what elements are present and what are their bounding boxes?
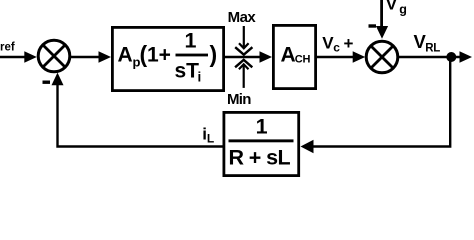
svg-text:V: V xyxy=(386,0,398,14)
svg-text:R + sL: R + sL xyxy=(229,146,291,170)
arrowhead into RL block xyxy=(301,140,314,153)
svg-text:sT: sT xyxy=(175,60,200,83)
svg-text:Min: Min xyxy=(227,91,251,108)
node VRL label xyxy=(414,31,441,54)
wire ACH to S2 xyxy=(316,51,365,63)
svg-text:): ) xyxy=(210,41,218,67)
wire PI to ACH with limiter xyxy=(224,51,272,63)
wire S2 to output xyxy=(398,51,472,63)
load block 1/(R+sL) xyxy=(224,112,299,175)
label ACH xyxy=(281,44,311,67)
svg-text:i: i xyxy=(198,70,202,85)
svg-text:+: + xyxy=(344,34,354,53)
minus sign at S1 xyxy=(43,81,51,84)
junction dot xyxy=(446,52,456,62)
svg-text:g: g xyxy=(399,3,407,17)
svg-text:ref: ref xyxy=(0,42,15,54)
node iL label xyxy=(202,124,214,145)
node Vc label xyxy=(322,33,340,54)
wire Vg input xyxy=(376,0,388,39)
limiter Max arrow xyxy=(235,26,252,55)
limiter Min arrow xyxy=(235,60,252,88)
label 1/(R+sL) xyxy=(229,115,294,170)
svg-text:1+: 1+ xyxy=(147,44,171,67)
svg-text:1: 1 xyxy=(185,29,197,53)
svg-text:A: A xyxy=(118,44,133,67)
svg-text:1: 1 xyxy=(256,115,268,139)
svg-text:RL: RL xyxy=(425,42,440,54)
label Ap(1+1/sTi) xyxy=(118,29,218,85)
wire feedback left to S1 xyxy=(58,85,224,147)
svg-text:CH: CH xyxy=(295,53,311,65)
wire feedback right vertical xyxy=(313,57,450,147)
wire S1 to PI block xyxy=(71,51,111,63)
summing junction S1 xyxy=(38,40,70,72)
wire Vref input xyxy=(0,51,37,63)
minus sign at S2 xyxy=(369,24,377,27)
PI controller block U1 xyxy=(112,27,223,90)
svg-text:L: L xyxy=(207,132,214,146)
svg-text:Max: Max xyxy=(228,9,257,26)
svg-text:A: A xyxy=(281,44,296,67)
svg-text:c: c xyxy=(333,41,340,55)
amplifier block ACH xyxy=(273,25,315,88)
node Vg label xyxy=(386,0,407,17)
summing junction S2 xyxy=(366,41,398,73)
arrowhead up into S1 xyxy=(52,73,64,86)
